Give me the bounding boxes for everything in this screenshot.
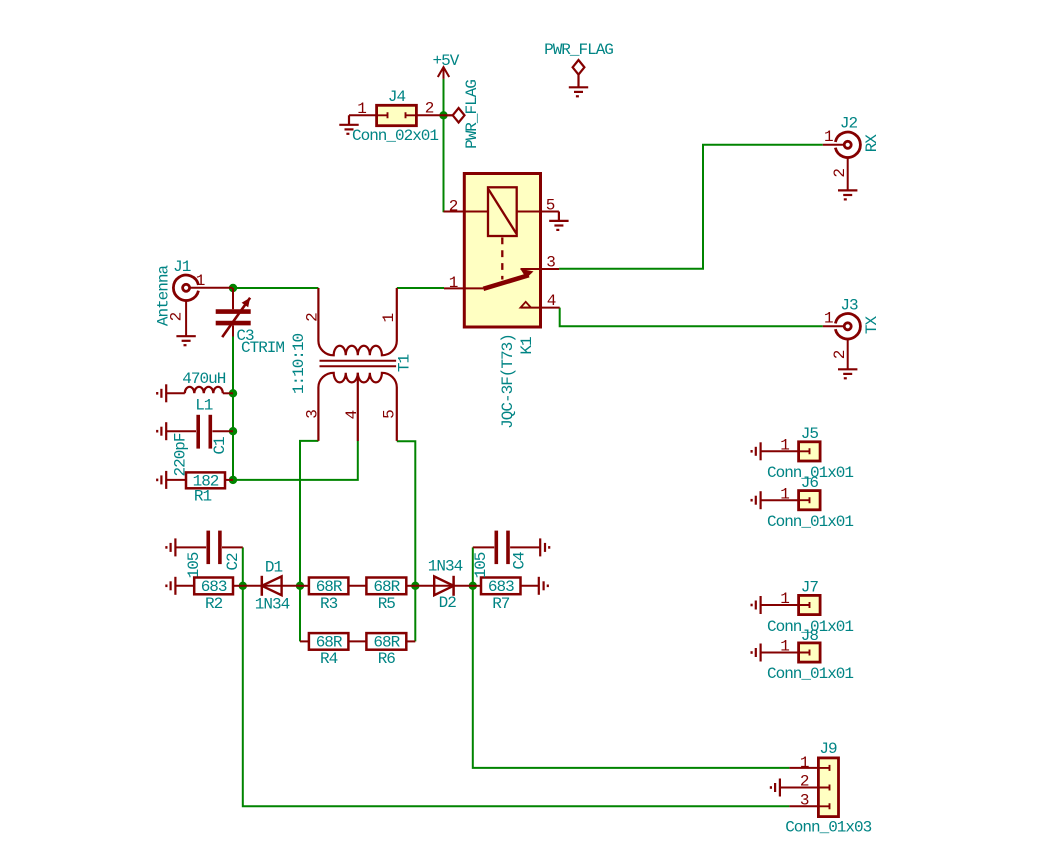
svg-text:1N34: 1N34: [428, 558, 463, 576]
resistor R4 68R: [300, 633, 366, 650]
svg-text:1: 1: [800, 754, 809, 772]
wire relay pin3 to J2: [559, 145, 823, 269]
capacitor C3 CTRIM: [216, 288, 251, 337]
switch arm: [483, 275, 528, 289]
relay K1 JQC-3F(T73): [444, 174, 560, 328]
wire T1 pin3 to R3/R4 node: [300, 441, 318, 642]
inductor L1 470uH: [166, 387, 233, 393]
ground at J3 pin2: [838, 369, 857, 378]
svg-text:1: 1: [780, 485, 789, 503]
svg-text:1: 1: [780, 638, 789, 656]
svg-text:R7: R7: [492, 595, 510, 613]
capacitor C2 105: [175, 531, 242, 565]
node L1 junction: [229, 389, 237, 397]
connector J6: [761, 491, 821, 510]
wire C3 down left bus: [232, 337, 234, 480]
ground at J6: [752, 491, 761, 509]
svg-text:1N34: 1N34: [255, 595, 290, 613]
svg-text:RX: RX: [863, 134, 881, 153]
ground at J4 pin1: [339, 115, 358, 134]
pin 3 line: [521, 268, 560, 270]
svg-text:1: 1: [380, 314, 398, 323]
svg-text:Conn_01x01: Conn_01x01: [767, 665, 853, 683]
svg-text:1:10:10: 1:10:10: [290, 334, 308, 395]
svg-text:+5V: +5V: [432, 52, 459, 70]
transformer T1 1:10:10: [318, 288, 396, 441]
svg-text:R2: R2: [205, 595, 223, 613]
svg-text:683: 683: [201, 578, 227, 596]
ground at J9 pin2: [771, 779, 780, 797]
ground at C4: [540, 538, 549, 556]
node R5/D2 junction: [411, 582, 419, 590]
svg-text:1: 1: [780, 437, 789, 455]
node R1 junction: [229, 476, 237, 484]
ground at J1 pin2: [176, 336, 195, 345]
svg-text:105: 105: [472, 552, 490, 578]
svg-text:2: 2: [449, 198, 458, 216]
svg-text:CTRIM: CTRIM: [241, 339, 284, 357]
svg-text:Conn_01x03: Conn_01x03: [785, 819, 871, 837]
svg-text:TX: TX: [863, 316, 881, 335]
power +5V: [438, 67, 449, 79]
pin 2 line: [444, 211, 489, 213]
resistor R5 68R: [366, 578, 415, 595]
wire J1 to T1 pin2: [233, 287, 318, 289]
svg-text:68R: 68R: [316, 634, 343, 652]
svg-text:J9: J9: [819, 740, 837, 758]
svg-text:2: 2: [425, 100, 434, 118]
connector J4: [349, 105, 444, 125]
connector J8: [761, 643, 821, 662]
svg-text:220pF: 220pF: [171, 433, 189, 476]
connector J2 RX: [823, 132, 861, 190]
svg-text:3: 3: [800, 792, 809, 810]
connector J5: [761, 442, 821, 461]
svg-text:4: 4: [547, 292, 556, 310]
svg-text:68R: 68R: [373, 634, 400, 652]
ground at R7: [539, 577, 548, 595]
svg-text:3: 3: [304, 410, 322, 419]
wire T1 pin5 to R5/R6 node: [397, 441, 416, 641]
svg-text:1: 1: [824, 310, 833, 328]
svg-text:1: 1: [196, 272, 205, 290]
svg-text:105: 105: [185, 552, 203, 578]
connector J3 TX: [823, 314, 861, 370]
pin 4 line: [521, 307, 560, 309]
svg-text:R3: R3: [320, 595, 338, 613]
svg-text:T1: T1: [395, 355, 413, 373]
svg-text:Conn_02x01: Conn_02x01: [352, 127, 438, 145]
svg-text:L1: L1: [195, 397, 213, 415]
ground at C2: [166, 538, 175, 556]
svg-text:C1: C1: [211, 437, 229, 455]
wire C4 corner down: [472, 547, 474, 585]
svg-text:5: 5: [546, 197, 555, 215]
svg-text:2: 2: [304, 313, 322, 322]
wire R1 junction to T1 pin4: [233, 441, 358, 480]
node D2/R7 junction: [469, 582, 477, 590]
wire C2 corner down: [242, 547, 244, 585]
svg-text:2: 2: [800, 773, 809, 791]
diode D2 1N34: [415, 576, 473, 596]
wire +5V to relay pin2: [443, 79, 445, 212]
connector J9 Conn_01x03: [780, 758, 839, 817]
svg-text:5: 5: [381, 410, 399, 419]
power flag PWR_FLAG (at +5V): [444, 108, 465, 123]
dashed actuator line: [501, 238, 503, 280]
node R2/D1 junction: [239, 582, 247, 590]
svg-text:1: 1: [449, 274, 458, 292]
svg-text:2: 2: [831, 169, 849, 178]
node +5V/J4 junction: [439, 111, 447, 119]
svg-text:R6: R6: [378, 650, 396, 668]
node C1 junction: [229, 427, 237, 435]
svg-text:1: 1: [824, 128, 833, 146]
svg-text:2: 2: [831, 350, 849, 359]
svg-text:683: 683: [488, 578, 514, 596]
svg-text:1: 1: [357, 100, 366, 118]
svg-text:68R: 68R: [316, 578, 343, 596]
svg-text:3: 3: [546, 254, 555, 272]
pin 5 line: [517, 211, 559, 213]
ground at J8: [752, 644, 761, 662]
pin 1 line: [444, 287, 483, 289]
svg-text:J5: J5: [801, 425, 819, 443]
svg-text:R4: R4: [320, 650, 338, 668]
svg-text:C2: C2: [224, 553, 242, 571]
diode D1 1N34: [243, 576, 300, 596]
svg-text:68R: 68R: [373, 578, 400, 596]
capacitor C4 105: [473, 531, 540, 565]
svg-text:J6: J6: [801, 474, 819, 492]
svg-text:Conn_01x01: Conn_01x01: [767, 513, 853, 531]
svg-text:1: 1: [780, 590, 789, 608]
svg-text:PWR_FLAG: PWR_FLAG: [463, 80, 481, 149]
ground at J2 pin2: [838, 190, 857, 199]
ground at C1: [157, 422, 166, 440]
ground at R1: [157, 471, 166, 489]
svg-text:J4: J4: [388, 88, 406, 106]
resistor R3 68R: [299, 578, 366, 595]
ground at L1: [157, 384, 166, 402]
svg-text:4: 4: [343, 410, 361, 419]
wire T1 pin1 to relay pin1: [397, 287, 444, 289]
resistor R6 68R: [366, 633, 415, 650]
power flag PWR_FLAG (top, grounded): [569, 60, 588, 96]
resistor R1 182: [166, 472, 233, 488]
ground at relay pin5: [549, 212, 568, 230]
connector J7: [761, 595, 821, 614]
svg-text:J8: J8: [801, 627, 819, 645]
svg-text:PWR_FLAG: PWR_FLAG: [544, 41, 613, 59]
svg-text:JQC-3F(T73): JQC-3F(T73): [499, 334, 517, 429]
resistor R7 683: [473, 578, 539, 595]
coil: [488, 187, 517, 236]
svg-text:470uH: 470uH: [182, 370, 225, 388]
svg-text:R5: R5: [378, 595, 396, 613]
resistor R2 683: [175, 578, 242, 595]
svg-text:D1: D1: [265, 559, 283, 577]
ground at R2: [166, 577, 175, 595]
svg-text:C4: C4: [510, 552, 528, 570]
node D1/R3 junction: [296, 582, 304, 590]
svg-text:J3: J3: [840, 297, 858, 315]
ground at J5: [752, 442, 761, 460]
NO contact triangle at pin 4: [521, 302, 532, 308]
svg-text:J1: J1: [173, 258, 191, 276]
node antenna junction: [229, 284, 237, 292]
svg-text:K1: K1: [518, 337, 536, 355]
connector J1 Antenna: [173, 275, 232, 336]
svg-text:R1: R1: [194, 488, 212, 506]
ground at J7: [752, 596, 761, 614]
wire R2 junction to J9 pin3: [243, 586, 790, 807]
svg-text:J2: J2: [840, 115, 858, 133]
svg-text:Antenna: Antenna: [154, 265, 172, 327]
wire relay pin4 to J3: [560, 308, 823, 327]
svg-text:D2: D2: [439, 594, 457, 612]
svg-text:J7: J7: [801, 579, 819, 597]
capacitor C1 220pF: [166, 415, 233, 449]
wire R7 junction to J9 pin1: [473, 586, 790, 768]
